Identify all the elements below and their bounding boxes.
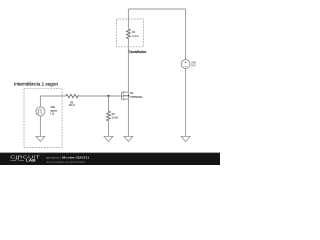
logo waveform line (10, 159, 24, 161)
wire VSIG top up and right to R3 (40, 96, 66, 107)
credit text line 1 (45, 156, 89, 160)
ground below R4 (104, 136, 113, 141)
voltage source VSIG circle square wave (36, 107, 45, 116)
resistor R4 zigzag (107, 111, 111, 121)
wire VDD source bottom to right ground (185, 68, 187, 136)
footer bar top highlight (0, 152, 220, 155)
transistor M1 NMOS (122, 91, 130, 100)
label R3 100 ohm (69, 100, 76, 107)
ground below M1 source (124, 136, 133, 141)
resistor R2 zigzag (127, 29, 131, 39)
node junction dot gate/R4 (107, 95, 109, 97)
wire VSIG bottom to ground (39, 116, 41, 136)
wire M1 source to ground (127, 99, 129, 136)
svg-text:LAB: LAB (26, 159, 37, 163)
label VSIG square 1 Hz (50, 105, 57, 116)
svg-text:http://circuitlab.com/c/hyb73x: http://circuitlab.com/c/hyb73x2u (46, 160, 85, 164)
wire R2 bottom down to M1 drain (127, 39, 129, 93)
label M1 STP55NF06L (130, 91, 143, 99)
svg-text:100 Ω: 100 Ω (69, 103, 76, 107)
dashed annotation box Intermitencia (24, 89, 62, 148)
svg-text:24 V: 24 V (191, 63, 195, 67)
voltage source V1 VDD circle (181, 60, 190, 69)
svg-text:STP55NF06L: STP55NF06L (130, 95, 143, 99)
ground right (181, 136, 190, 141)
resistor R3 zigzag horizontal (66, 94, 79, 97)
label R4 10 kohm (112, 112, 119, 120)
label R2 2.4 ohm (132, 30, 139, 38)
wire R3 right to gate node (79, 95, 122, 97)
svg-text:Escalfador: Escalfador (128, 49, 147, 54)
svg-text:10 kΩ: 10 kΩ (112, 115, 119, 119)
label VDD 24 V (191, 61, 196, 68)
dashed annotation box Escalfador (117, 19, 144, 47)
footer black bar (0, 153, 220, 165)
wire right vertical from top corner down to VDD source (185, 9, 187, 60)
wire node down to R4 (108, 96, 110, 111)
svg-text:2.4 Ω: 2.4 Ω (132, 34, 139, 38)
svg-text:Intermitència 1 segon: Intermitència 1 segon (14, 82, 58, 87)
wire top horizontal from R2 branch to VDD branch (128, 8, 185, 10)
svg-text:1 Hz: 1 Hz (50, 112, 54, 116)
wire R2 branch: top corner down to resistor R2 (127, 9, 129, 29)
wire R4 bottom to ground (108, 121, 110, 137)
ground below VSIG (36, 136, 45, 141)
